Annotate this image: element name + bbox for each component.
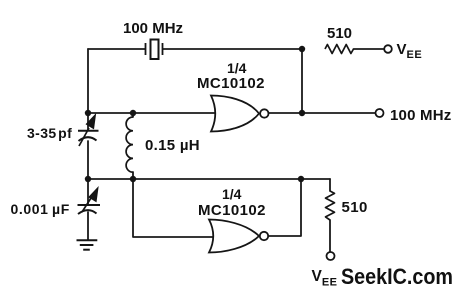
svg-text:100 MHz: 100 MHz: [390, 107, 451, 124]
ground: [77, 240, 98, 249]
wire top rail: [88, 48, 302, 50]
wire inductor leads: [132, 113, 134, 179]
svg-text:VEE: VEE: [312, 268, 338, 289]
svg-text:1/4: 1/4: [227, 60, 247, 76]
wire left rail upper segment: [87, 49, 89, 130]
node junction output: [299, 110, 305, 116]
wire node V1 vertical: [301, 49, 303, 113]
node junction left second rail: [85, 176, 91, 182]
wire left rail lower segment: [87, 212, 89, 240]
svg-text:VEE: VEE: [397, 41, 423, 61]
wire top rail to resistor R1: [354, 48, 385, 50]
svg-text:SeekIC.com: SeekIC.com: [341, 264, 453, 289]
node junction top rail: [299, 46, 305, 52]
terminal VEE top: [384, 45, 392, 53]
wire second rail: [88, 178, 330, 180]
wire to resistor R2: [329, 179, 331, 191]
svg-text:100 MHz: 100 MHz: [123, 20, 183, 37]
wire gate U1b output feedback: [269, 179, 302, 236]
resistor R1 510 (top right, horizontal): [325, 45, 354, 54]
node junction second rail right: [298, 176, 304, 182]
crystal Y1 100 MHz: [146, 40, 163, 60]
variable capacitor C2 0.001 uF: [78, 188, 101, 215]
node junction left mid: [85, 110, 91, 116]
svg-text:0.15 µH: 0.15 µH: [145, 137, 200, 154]
wire mid rail to gate U1a input: [88, 112, 216, 114]
svg-text:1/4: 1/4: [222, 186, 242, 202]
NOR gate U1a 1/4 MC10102 (top): [211, 96, 268, 132]
wire left rail middle segment: [87, 141, 89, 205]
wire gate U1a output to 100MHz terminal: [269, 112, 376, 114]
wire resistor R2 to VEE terminal: [329, 220, 331, 252]
svg-text:MC10102: MC10102: [198, 202, 266, 219]
svg-text:MC10102: MC10102: [197, 75, 265, 92]
resistor R2 510 (bottom right, vertical): [326, 191, 335, 220]
variable capacitor C1 3-35pf: [78, 115, 99, 147]
svg-text:3-35pf: 3-35pf: [27, 125, 72, 141]
svg-text:510: 510: [342, 199, 368, 216]
inductor L1 0.15 uH: [126, 117, 133, 172]
terminal output 100 MHz: [376, 109, 384, 117]
NOR gate U1b 1/4 MC10102 (bottom): [209, 220, 268, 253]
svg-text:510: 510: [327, 25, 352, 42]
node junction inductor bottom: [130, 176, 136, 182]
wire to gate U1b input: [133, 179, 214, 237]
terminal VEE bottom: [327, 252, 335, 260]
node junction inductor top: [130, 110, 136, 116]
svg-text:0.001µF: 0.001µF: [11, 201, 70, 217]
